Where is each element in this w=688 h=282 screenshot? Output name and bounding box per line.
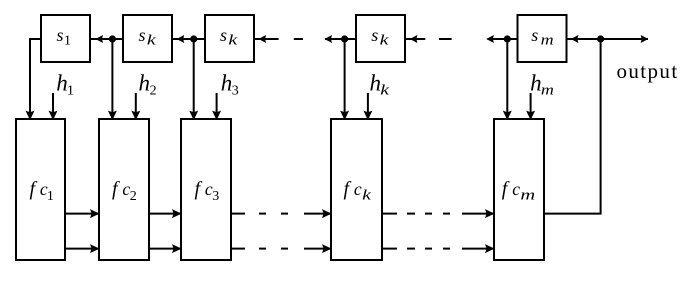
- wire fck lead-out upper: [382, 213, 397, 215]
- arrowhead mid-dash left of s_m: [486, 35, 494, 43]
- box fck: [331, 119, 382, 260]
- wire h2 arrow: [135, 93, 137, 120]
- wire s_m to dash: [488, 38, 518, 40]
- wire hk arrow: [367, 93, 369, 120]
- wire dash upper e: [443, 213, 450, 215]
- wire fc_m output up: [544, 39, 601, 214]
- arrowhead into s_m: [571, 35, 579, 43]
- svg-text:hm: hm: [530, 70, 554, 98]
- wire fc2 to fc3 upper arrow: [149, 213, 181, 215]
- svg-text:sk: sk: [371, 25, 389, 48]
- wire into fck upper arrow: [304, 213, 331, 215]
- arrowhead into s_k2: [177, 35, 185, 43]
- arrowhead into s_k4: [410, 35, 418, 43]
- svg-text:s1: s1: [57, 25, 72, 48]
- arrowhead mid-dash left of s_k4: [324, 35, 332, 43]
- junction dot 5: [597, 35, 604, 42]
- junction dot 3: [341, 35, 348, 42]
- box s_k (3rd): [205, 15, 254, 62]
- wire fck lead-out lower: [382, 248, 397, 250]
- wire h1 arrow: [52, 93, 54, 120]
- wire dash lower d: [425, 248, 432, 250]
- box fc2: [99, 119, 149, 260]
- box s_m: [518, 15, 567, 62]
- svg-text:hk: hk: [370, 70, 390, 98]
- svg-text:sk: sk: [139, 25, 157, 48]
- svg-text:h3: h3: [221, 70, 239, 98]
- svg-text:sk: sk: [220, 25, 238, 48]
- box s1: [41, 15, 90, 62]
- wire dash-region to s_k3: [254, 38, 279, 40]
- svg-text:fc1: fc1: [30, 178, 55, 204]
- wire dash upper a: [259, 213, 266, 215]
- box s_k (2nd): [123, 15, 172, 62]
- svg-text:fck: fck: [344, 178, 372, 203]
- wire dash upper d: [425, 213, 432, 215]
- wire drop to fcm: [506, 39, 508, 120]
- wire into fcm upper arrow: [462, 213, 494, 215]
- wire into fcm lower arrow: [462, 248, 494, 250]
- wire dash lower e: [443, 248, 450, 250]
- arrowhead into s_k3: [259, 35, 267, 43]
- wire drop to fc3: [193, 39, 195, 120]
- box s_k (4th): [356, 15, 405, 62]
- svg-text:sm: sm: [531, 25, 554, 48]
- wire s_m to output end: [567, 38, 649, 40]
- box fcm: [494, 119, 544, 260]
- wire into fck lower arrow: [304, 248, 331, 250]
- junction dot 1: [109, 35, 116, 42]
- wire dash between s_k3 and s_k4: [294, 38, 303, 40]
- wire dash upper c: [407, 213, 415, 215]
- svg-text:fc2: fc2: [112, 178, 137, 204]
- wire s_k2 to s1: [91, 38, 124, 40]
- wire h3 arrow: [216, 93, 218, 120]
- box fc3: [181, 119, 231, 260]
- junction dot 4: [504, 35, 511, 42]
- svg-text:fc3: fc3: [195, 178, 220, 204]
- wire s_k3 to s_k2: [172, 38, 205, 40]
- svg-text:output: output: [617, 59, 679, 83]
- wire fc1 to fc2 upper arrow: [65, 213, 99, 215]
- wire fc3 lead-out lower: [231, 248, 245, 250]
- wire s_k4 to dash: [325, 38, 356, 40]
- svg-text:fcm: fcm: [502, 178, 536, 203]
- wire fc3 lead-out upper: [231, 213, 245, 215]
- wire fc1 to fc2 lower arrow: [65, 248, 99, 250]
- arrowhead output: [641, 35, 649, 43]
- junction dot 2: [190, 35, 197, 42]
- wire dash lower c: [407, 248, 415, 250]
- wire drop to fck: [344, 39, 346, 120]
- wire fc2 to fc3 lower arrow: [149, 248, 181, 250]
- wire dash between s_k4 and s_m: [439, 38, 452, 40]
- arrowhead into s1: [95, 35, 103, 43]
- wire dash-region to s_k4: [405, 38, 425, 40]
- wire dash upper b: [281, 213, 288, 215]
- wire dash lower b: [281, 248, 288, 250]
- svg-text:h1: h1: [56, 70, 74, 98]
- box fc1: [16, 119, 65, 260]
- wire s1 loop down to fc1: [30, 39, 41, 120]
- wire dash lower a: [259, 248, 266, 250]
- wire drop to fc2: [111, 39, 113, 120]
- svg-text:h2: h2: [139, 70, 157, 98]
- wire hm arrow: [530, 93, 532, 120]
